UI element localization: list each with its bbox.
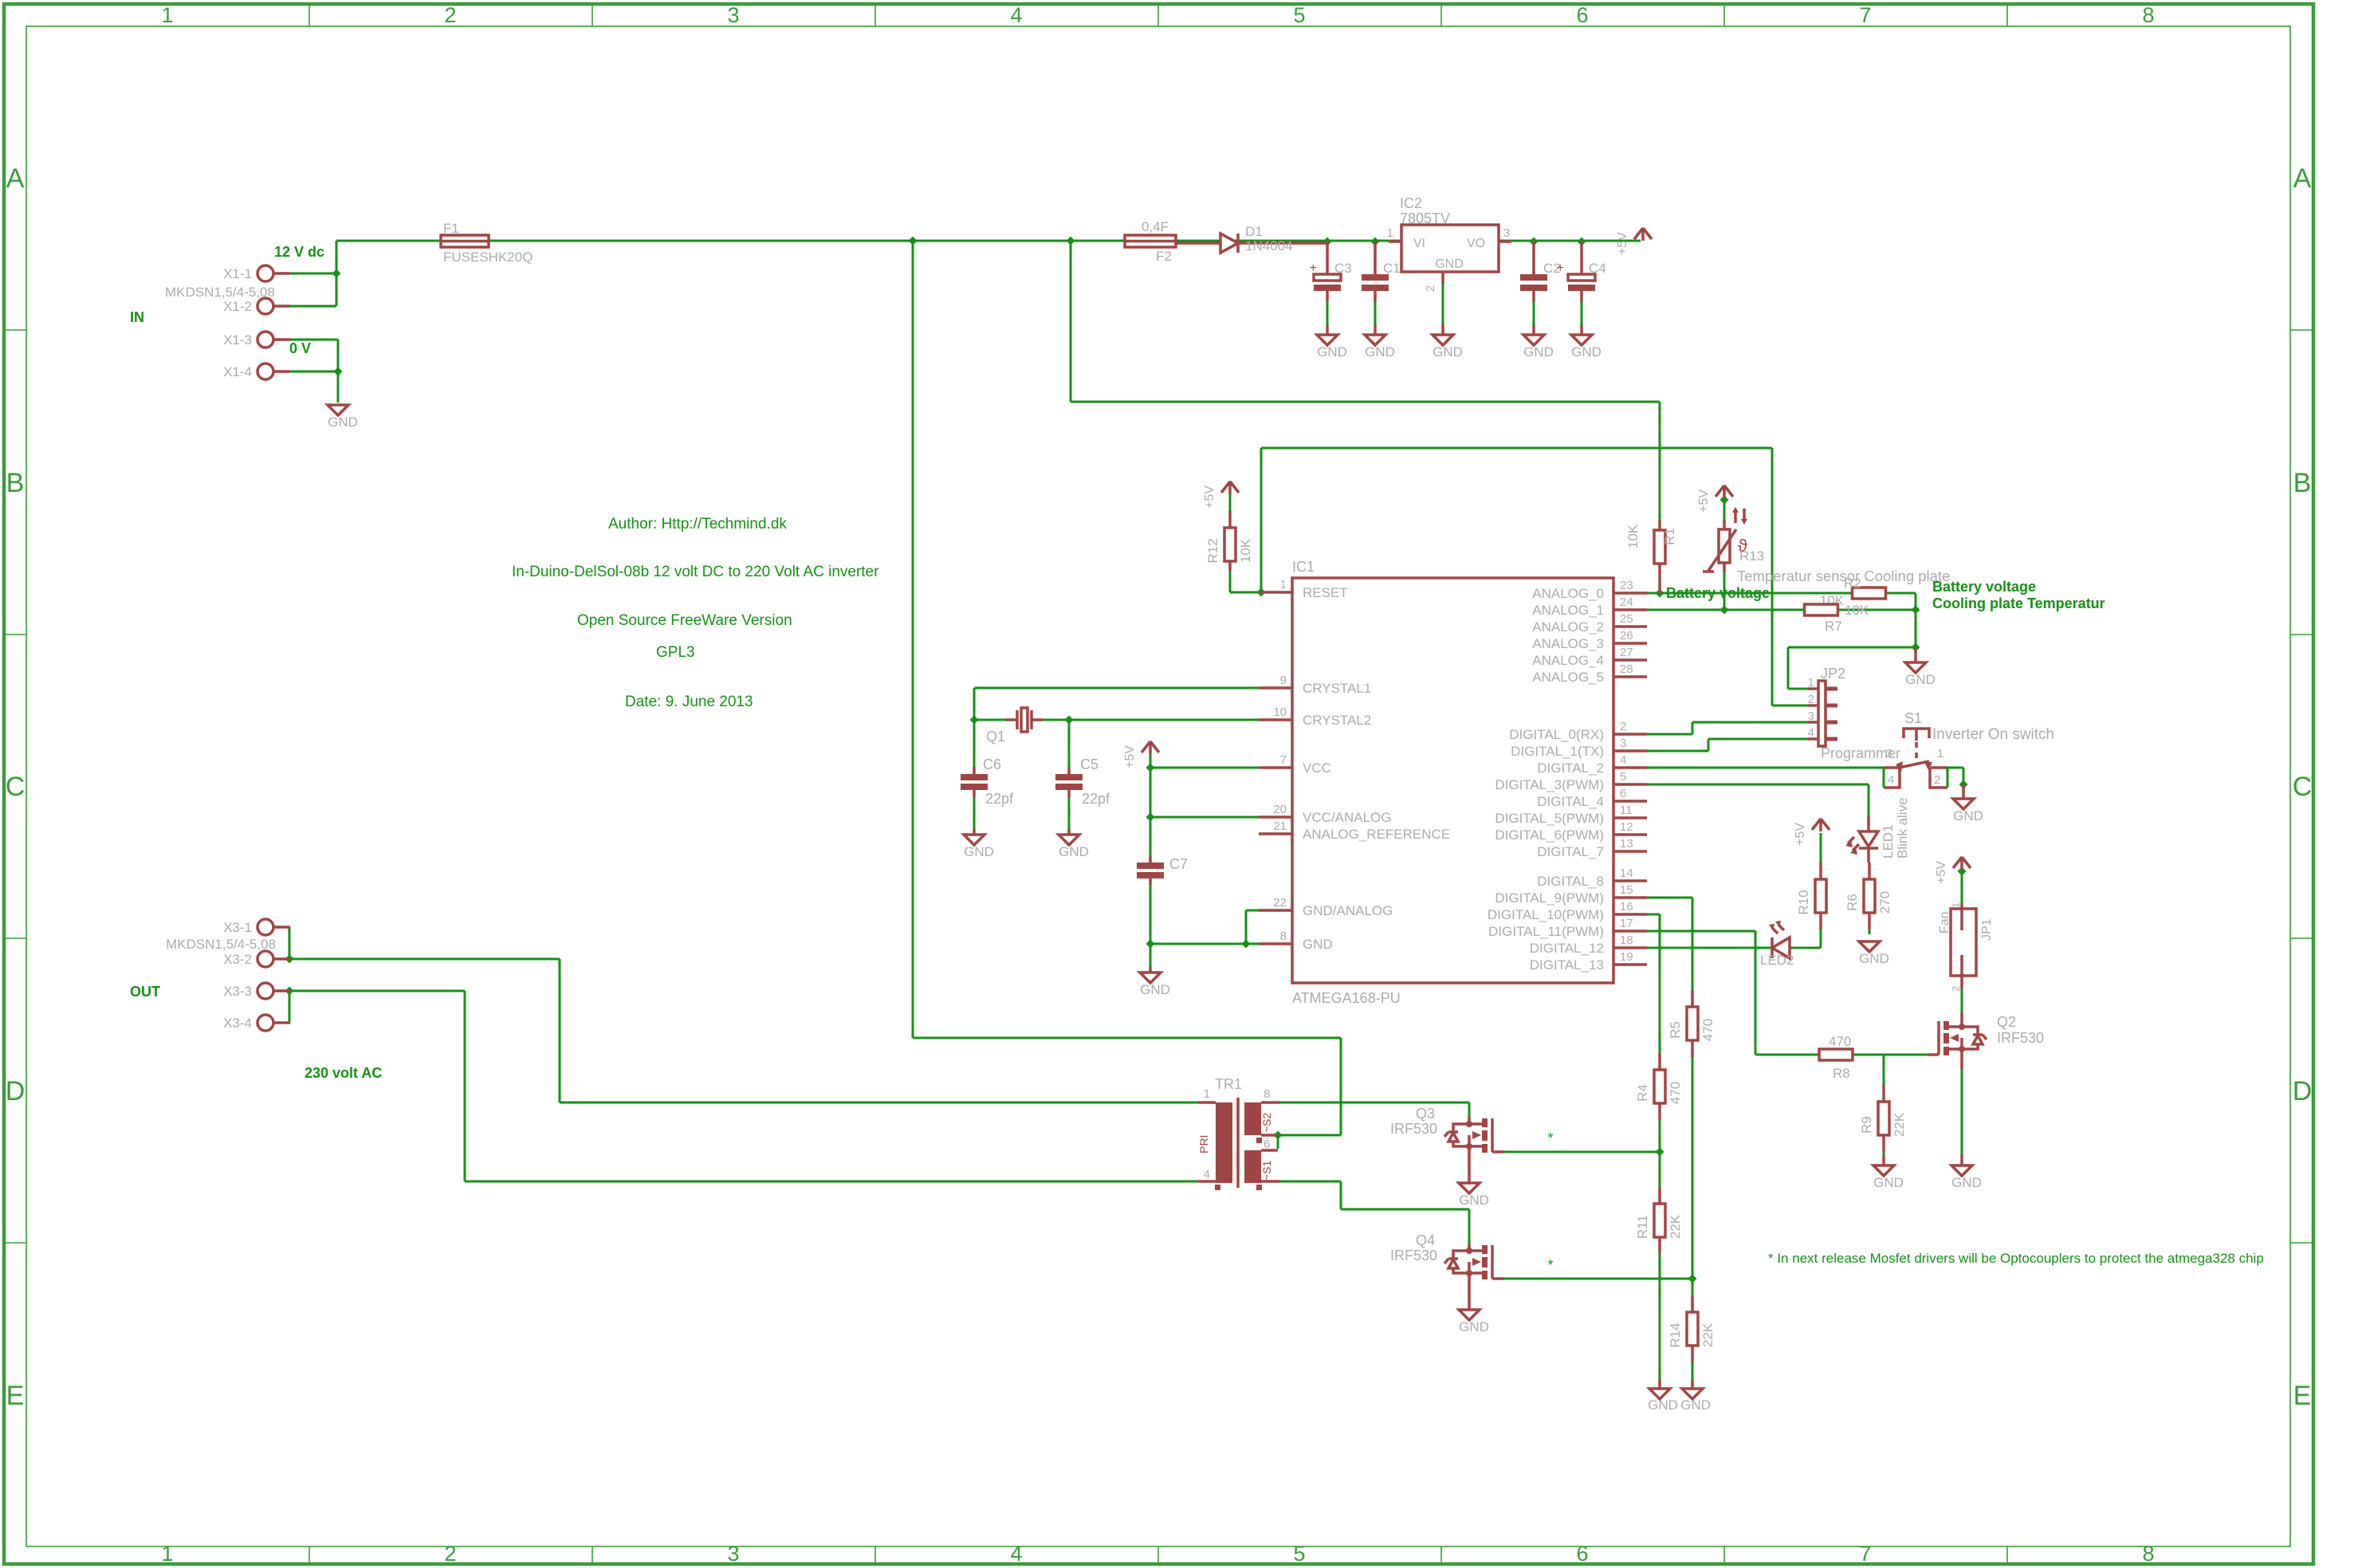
svg-text:Author: Http://Techmind.dk: Author: Http://Techmind.dk — [608, 516, 787, 532]
svg-text:7: 7 — [1859, 1542, 1871, 1566]
svg-text:7: 7 — [1280, 753, 1287, 767]
diode D1 1N4004 — [1220, 234, 1238, 253]
svg-text:PRI: PRI — [1197, 1135, 1210, 1153]
svg-text:Q2: Q2 — [1997, 1014, 2016, 1030]
svg-text:JP2: JP2 — [1821, 666, 1845, 682]
ground GND C2 — [1523, 335, 1544, 345]
svg-text:ANALOG_REFERENCE: ANALOG_REFERENCE — [1303, 827, 1450, 842]
svg-text:1N4004: 1N4004 — [1245, 238, 1293, 253]
svg-text:DIGITAL_0(RX): DIGITAL_0(RX) — [1509, 727, 1604, 742]
svg-text:*: * — [1547, 1130, 1553, 1146]
svg-text:VI: VI — [1413, 237, 1425, 250]
svg-text:Fan: Fan — [1938, 911, 1951, 933]
svg-text:1: 1 — [161, 1542, 173, 1566]
svg-text:C: C — [2293, 772, 2313, 802]
junction X1-1 node — [332, 269, 341, 278]
junction C7 GND node — [1146, 940, 1155, 949]
svg-text:6: 6 — [1620, 787, 1626, 800]
svg-text:22K: 22K — [1892, 1112, 1907, 1137]
ground GND C6 — [964, 835, 984, 845]
svg-text:IC2: IC2 — [1400, 195, 1422, 211]
svg-text:24: 24 — [1620, 595, 1633, 609]
svg-text:A: A — [2293, 163, 2312, 194]
svg-text:ANALOG_1: ANALOG_1 — [1532, 603, 1604, 618]
svg-text:23: 23 — [1620, 579, 1633, 592]
svg-text:6: 6 — [1576, 1542, 1588, 1566]
svg-text:R13: R13 — [1739, 548, 1764, 564]
svg-text:8: 8 — [1280, 929, 1287, 943]
svg-text:20: 20 — [1273, 803, 1287, 816]
svg-text:B: B — [6, 468, 25, 498]
svg-text:3: 3 — [1620, 737, 1626, 750]
svg-text:GND: GND — [328, 415, 358, 430]
svg-text:R7: R7 — [1825, 619, 1842, 634]
capacitor C2 — [1532, 242, 1535, 301]
ground GND Q4 symbol — [1459, 1310, 1480, 1320]
svg-text:DIGITAL_6(PWM): DIGITAL_6(PWM) — [1495, 827, 1604, 843]
svg-text:2: 2 — [1424, 285, 1437, 292]
svg-text:10K: 10K — [1238, 538, 1253, 563]
svg-text:27: 27 — [1620, 646, 1633, 659]
+5V supply JP1 — [1953, 857, 1971, 870]
svg-text:0 V: 0 V — [289, 340, 311, 356]
connector pin X3-2 — [257, 951, 273, 967]
svg-text:X3-2: X3-2 — [223, 952, 252, 967]
svg-text:1: 1 — [161, 3, 173, 27]
resistor R6 — [1864, 879, 1875, 913]
svg-text:5: 5 — [1620, 770, 1626, 784]
svg-text:ANALOG_3: ANALOG_3 — [1532, 636, 1604, 651]
svg-text:VCC: VCC — [1303, 760, 1331, 776]
resistor R9 — [1878, 1102, 1889, 1135]
junction crystal C5 node — [1065, 716, 1074, 725]
resistor R12 — [1224, 528, 1236, 561]
svg-text:GND: GND — [1571, 344, 1602, 360]
svg-text:4: 4 — [1808, 726, 1814, 740]
svg-text:GND: GND — [1459, 1193, 1489, 1208]
svg-text:15: 15 — [1620, 883, 1633, 897]
svg-text:1: 1 — [1387, 226, 1393, 240]
svg-text:4: 4 — [1010, 3, 1022, 27]
svg-text:+5V: +5V — [1794, 823, 1807, 846]
junction X1-4 node — [334, 367, 343, 376]
svg-text:MKDSN1,5/4-5,08: MKDSN1,5/4-5,08 — [165, 285, 275, 300]
connector pin X1-4 — [257, 364, 273, 379]
ground GND C5 — [1059, 835, 1079, 845]
junction C2 node — [1530, 238, 1539, 246]
LED1 blink alive — [1867, 815, 1870, 863]
svg-text:470: 470 — [1700, 1019, 1715, 1041]
svg-text:GND: GND — [1317, 344, 1347, 360]
junction X3-3 node — [285, 987, 294, 996]
svg-text:C3: C3 — [1334, 261, 1352, 276]
svg-text:4: 4 — [1204, 1168, 1210, 1181]
svg-text:GND: GND — [1873, 1175, 1904, 1190]
ground GND Q2 symbol — [1951, 1165, 1972, 1176]
svg-text:DIGITAL_5(PWM): DIGITAL_5(PWM) — [1495, 811, 1604, 826]
ground GND S1 — [1962, 784, 1965, 799]
svg-text:GND: GND — [1680, 1397, 1711, 1413]
svg-text:+: + — [1557, 261, 1564, 275]
svg-text:22K: 22K — [1668, 1214, 1683, 1239]
svg-text:10K: 10K — [1845, 603, 1869, 618]
svg-text:2: 2 — [1950, 986, 1962, 992]
ground GND C1 — [1365, 335, 1385, 345]
svg-text:S1: S1 — [1904, 710, 1922, 726]
svg-text:OUT: OUT — [130, 984, 160, 1000]
ground GND S1 symbol — [1953, 799, 1974, 809]
svg-text:Date: 9. June 2013: Date: 9. June 2013 — [625, 694, 753, 710]
svg-text:DIGITAL_8: DIGITAL_8 — [1537, 874, 1604, 889]
ground GND Q4 — [1468, 1273, 1471, 1310]
svg-text:+5V: +5V — [1616, 232, 1629, 255]
svg-text:B: B — [2293, 468, 2312, 498]
junction R13 +5V node — [1720, 496, 1729, 505]
svg-text:DIGITAL_10(PWM): DIGITAL_10(PWM) — [1488, 907, 1604, 922]
resistor R5 — [1687, 1007, 1698, 1040]
svg-text:12 V dc: 12 V dc — [274, 244, 324, 260]
svg-text:D: D — [6, 1076, 26, 1106]
ground GND R11 — [1658, 1379, 1661, 1389]
capacitor C1 — [1374, 242, 1377, 301]
svg-text:X1-3: X1-3 — [223, 332, 252, 348]
svg-text:R10: R10 — [1796, 890, 1811, 914]
svg-text:22pf: 22pf — [1082, 791, 1110, 807]
svg-text:X3-1: X3-1 — [223, 920, 252, 935]
junction C3 node — [1323, 238, 1332, 246]
svg-text:3: 3 — [1503, 226, 1510, 240]
svg-text:GND: GND — [1433, 344, 1463, 360]
junction R1 pin23 node — [1656, 589, 1664, 598]
svg-text:2: 2 — [444, 3, 456, 27]
resistor R14 — [1687, 1312, 1698, 1346]
svg-text:Cooling plate Temperatur: Cooling plate Temperatur — [1932, 595, 2105, 611]
svg-text:C5: C5 — [1080, 756, 1098, 772]
ground GND Q2 — [1960, 1154, 1963, 1165]
svg-text:E: E — [2293, 1381, 2312, 1411]
svg-text:DIGITAL_11(PWM): DIGITAL_11(PWM) — [1488, 924, 1604, 939]
svg-text:ANALOG_4: ANALOG_4 — [1532, 653, 1604, 668]
svg-text:GND: GND — [964, 844, 994, 859]
svg-text:25: 25 — [1620, 612, 1633, 626]
ground GND R9 symbol — [1873, 1165, 1894, 1176]
svg-text:18: 18 — [1620, 933, 1633, 947]
svg-text:GND: GND — [1459, 1319, 1489, 1334]
resistor R10 — [1815, 879, 1826, 913]
junction C4 node — [1578, 238, 1586, 246]
svg-text:X1-4: X1-4 — [223, 364, 252, 379]
svg-text:16: 16 — [1620, 900, 1633, 914]
svg-text:8: 8 — [2142, 3, 2154, 27]
svg-text:+5V: +5V — [1203, 485, 1216, 509]
svg-text:D1: D1 — [1245, 224, 1263, 239]
svg-text:TR1: TR1 — [1215, 1076, 1242, 1092]
svg-text:*: * — [1547, 1257, 1553, 1273]
crystal Q1 — [1006, 718, 1043, 721]
junction TR1 tap node — [1274, 1131, 1283, 1140]
svg-text:4: 4 — [1620, 753, 1626, 767]
svg-text:ANALOG_5: ANALOG_5 — [1532, 670, 1604, 685]
wire Q4 source to GND — [289, 241, 1963, 1379]
svg-text:DIGITAL_12: DIGITAL_12 — [1530, 941, 1604, 956]
svg-text:GND: GND — [1951, 1175, 1982, 1190]
svg-text:GND: GND — [1905, 672, 1936, 687]
svg-text:X1-2: X1-2 — [223, 299, 252, 314]
svg-text:IRF530: IRF530 — [1390, 1121, 1437, 1137]
svg-text:FUSESHK20Q: FUSESHK20Q — [443, 250, 533, 265]
svg-text:* In next release Mosfet drive: * In next release Mosfet drivers will be… — [1768, 1251, 2264, 1266]
svg-text:DIGITAL_13: DIGITAL_13 — [1530, 957, 1604, 973]
resistor R8 — [1819, 1049, 1853, 1060]
svg-text:R1: R1 — [1662, 528, 1677, 545]
resistor R11 — [1654, 1204, 1665, 1237]
junction R13 pin24 node — [1720, 606, 1729, 615]
svg-text:R2: R2 — [1844, 576, 1861, 591]
junction crystal C6 node — [970, 716, 979, 725]
svg-text:4: 4 — [1888, 773, 1894, 787]
ground GND C3 — [1317, 335, 1338, 345]
svg-text:22: 22 — [1273, 896, 1287, 910]
thermistor R13 — [1723, 520, 1726, 572]
svg-text:JP1: JP1 — [1980, 918, 1994, 941]
fuse F1 — [441, 235, 489, 247]
svg-text:DIGITAL_7: DIGITAL_7 — [1537, 844, 1604, 859]
junction S1 GND node — [1959, 780, 1968, 789]
svg-text:+5V: +5V — [1935, 861, 1948, 884]
svg-text:VO: VO — [1467, 237, 1485, 250]
svg-text:8: 8 — [1264, 1087, 1270, 1101]
svg-text:14: 14 — [1620, 867, 1633, 880]
svg-text:270: 270 — [1877, 891, 1892, 914]
svg-text:28: 28 — [1620, 662, 1633, 676]
svg-text:21: 21 — [1273, 819, 1287, 833]
resistor R7 — [1805, 604, 1838, 615]
svg-text:A: A — [6, 163, 25, 194]
junction VCC analog node — [1146, 813, 1155, 822]
switch S1 inverter on — [1904, 729, 1929, 741]
+5V supply VCC — [1142, 741, 1159, 754]
svg-text:DIGITAL_4: DIGITAL_4 — [1537, 794, 1604, 809]
svg-text:3: 3 — [727, 3, 739, 27]
LED2 — [1771, 946, 1792, 949]
svg-text:2: 2 — [1620, 720, 1626, 733]
svg-text:DIGITAL_1(TX): DIGITAL_1(TX) — [1511, 744, 1604, 759]
svg-text:2: 2 — [444, 1542, 456, 1566]
junction rail TR1 drop node — [909, 237, 918, 246]
junction JP1 +5V node — [1958, 867, 1967, 876]
svg-text:C4: C4 — [1589, 261, 1606, 276]
svg-text:12: 12 — [1620, 820, 1633, 834]
svg-text:C1: C1 — [1383, 261, 1401, 276]
svg-text:6: 6 — [1264, 1138, 1270, 1151]
svg-text:GND: GND — [1859, 951, 1889, 966]
svg-text:1: 1 — [1937, 747, 1943, 760]
svg-text:R8: R8 — [1833, 1066, 1850, 1081]
fuse F2 — [1125, 235, 1176, 247]
+5V supply R12 — [1221, 481, 1239, 494]
svg-text:RESET: RESET — [1303, 585, 1348, 600]
svg-text:Battery voltage: Battery voltage — [1932, 579, 2036, 595]
svg-text:22K: 22K — [1700, 1322, 1715, 1347]
svg-text:1: 1 — [1280, 578, 1287, 591]
ground GND R6 — [1859, 941, 1880, 952]
ground GND Q3 symbol — [1459, 1183, 1480, 1193]
svg-text:IRF530: IRF530 — [1390, 1248, 1437, 1263]
ground GND R2 R7 symbol — [1905, 662, 1926, 673]
svg-text:LED1: LED1 — [1881, 824, 1896, 859]
svg-text:X3-3: X3-3 — [223, 984, 252, 999]
svg-text:C6: C6 — [983, 756, 1001, 772]
svg-text:17: 17 — [1620, 917, 1633, 930]
svg-text:1: 1 — [1204, 1087, 1210, 1101]
svg-text:2: 2 — [1934, 773, 1940, 787]
transformer TR1 — [1216, 1102, 1232, 1183]
svg-text:4: 4 — [1010, 1542, 1022, 1566]
svg-text:26: 26 — [1620, 629, 1633, 643]
junction GND branch node — [1912, 643, 1920, 652]
svg-text:9: 9 — [1280, 674, 1287, 687]
svg-text:IRF530: IRF530 — [1997, 1030, 2044, 1046]
junction Q4 gate node — [1688, 1275, 1697, 1283]
junction pin22 pin8 node — [1242, 940, 1251, 949]
svg-text:7805TV: 7805TV — [1400, 210, 1450, 226]
svg-text:230 volt AC: 230 volt AC — [305, 1065, 382, 1081]
junction X3-2 node — [285, 955, 294, 964]
svg-text:LED2: LED2 — [1760, 953, 1794, 968]
junction VCC node — [1146, 764, 1155, 772]
svg-text:VCC/ANALOG: VCC/ANALOG — [1303, 810, 1391, 825]
svg-text:IN: IN — [130, 309, 144, 325]
svg-text:R9: R9 — [1859, 1116, 1874, 1134]
svg-text:0,4F: 0,4F — [1142, 219, 1169, 234]
svg-text:GND/ANALOG: GND/ANALOG — [1303, 903, 1393, 918]
capacitor C4 — [1580, 242, 1583, 301]
svg-text:GND: GND — [1523, 344, 1554, 360]
svg-text:Blink alive: Blink alive — [1895, 797, 1910, 859]
svg-text:7: 7 — [1859, 3, 1871, 27]
svg-text:8: 8 — [2142, 1542, 2154, 1566]
connector pin X1-3 — [257, 332, 273, 348]
+5V supply R13 — [1715, 485, 1733, 498]
ground GND Q3 — [1468, 1146, 1471, 1183]
svg-text:R4: R4 — [1635, 1084, 1650, 1102]
svg-text:E: E — [6, 1381, 25, 1411]
ground GND R2 R7 — [1914, 647, 1917, 662]
svg-text:Q3: Q3 — [1416, 1106, 1435, 1122]
svg-text:C7: C7 — [1169, 856, 1188, 872]
svg-text:1: 1 — [1808, 676, 1814, 690]
connector JP1 fan — [1951, 909, 1976, 976]
ground GND X1 — [328, 405, 348, 415]
svg-text:Inverter On switch: Inverter On switch — [1932, 726, 2054, 743]
svg-text:GND: GND — [1365, 344, 1395, 360]
svg-text:11: 11 — [1620, 804, 1633, 817]
transistor Q3 IRF530 — [1468, 1116, 1471, 1124]
junction C1 node — [1371, 238, 1380, 246]
junction rail drop node — [1067, 237, 1075, 246]
svg-text:MKDSN1,5/4-5,08: MKDSN1,5/4-5,08 — [166, 937, 276, 952]
svg-text:GND: GND — [1140, 982, 1170, 997]
svg-text:5: 5 — [1293, 3, 1305, 27]
connector pin X1-2 — [257, 298, 273, 314]
svg-text:In-Duino-DelSol-08b 12 volt DC: In-Duino-DelSol-08b 12 volt DC to 220 Vo… — [512, 564, 879, 580]
svg-text:ATMEGA168-PU: ATMEGA168-PU — [1292, 990, 1401, 1006]
+5V supply rail — [1634, 228, 1652, 241]
ground GND R9 — [1882, 1156, 1885, 1165]
svg-text:Open Source FreeWare Version: Open Source FreeWare Version — [577, 612, 792, 629]
svg-text:10K: 10K — [1625, 524, 1641, 548]
svg-text:DIGITAL_3(PWM): DIGITAL_3(PWM) — [1495, 777, 1604, 792]
svg-text:X3-4: X3-4 — [223, 1016, 252, 1031]
svg-text:6: 6 — [1576, 3, 1588, 27]
svg-text:R14: R14 — [1668, 1322, 1683, 1347]
svg-text:D: D — [2293, 1076, 2313, 1106]
svg-text:Q1: Q1 — [986, 729, 1005, 745]
svg-text:~S2: ~S2 — [1260, 1112, 1273, 1133]
svg-text:GND: GND — [1953, 808, 1983, 823]
connector pin X3-4 — [257, 1015, 273, 1031]
svg-text:ANALOG_2: ANALOG_2 — [1532, 619, 1604, 635]
svg-text:C: C — [6, 772, 26, 802]
svg-text:2: 2 — [1808, 693, 1814, 706]
svg-text:CRYSTAL1: CRYSTAL1 — [1303, 681, 1371, 696]
svg-text:3: 3 — [1886, 747, 1892, 760]
ground GND IC2 — [1433, 335, 1453, 345]
+5V supply R10 — [1812, 819, 1829, 831]
svg-text:19: 19 — [1620, 950, 1633, 964]
ground GND C7 — [1140, 973, 1161, 983]
svg-text:3: 3 — [1808, 709, 1814, 723]
connector pin X3-3 — [257, 983, 273, 999]
connector pin X1-1 — [257, 265, 273, 281]
capacitor C6 — [973, 767, 976, 797]
svg-text:+5V: +5V — [1123, 745, 1137, 768]
ground GND R14 — [1691, 1379, 1694, 1389]
svg-text:R11: R11 — [1635, 1215, 1650, 1239]
junction Q3 gate node — [1656, 1148, 1664, 1157]
svg-text:DIGITAL_2: DIGITAL_2 — [1537, 760, 1604, 776]
resistor R2 — [1853, 588, 1886, 599]
svg-text:470: 470 — [1829, 1034, 1851, 1049]
svg-text:CRYSTAL2: CRYSTAL2 — [1303, 713, 1371, 728]
junction R2 R7 node — [1912, 606, 1920, 615]
svg-text:5: 5 — [1293, 1542, 1305, 1566]
svg-text:ANALOG_0: ANALOG_0 — [1532, 586, 1604, 601]
capacitor C5 — [1067, 767, 1071, 797]
svg-text:470: 470 — [1668, 1082, 1683, 1104]
IC IC1 ATMEGA168-PU box — [1292, 578, 1613, 983]
svg-text:1: 1 — [1950, 902, 1962, 908]
svg-text:GND: GND — [1059, 844, 1089, 859]
svg-text:Q4: Q4 — [1416, 1232, 1435, 1248]
svg-text:+: + — [1310, 261, 1317, 275]
transistor Q2 IRF530 — [1960, 1012, 1963, 1027]
svg-text:GND: GND — [1435, 257, 1464, 271]
capacitor C7 — [1149, 856, 1152, 885]
resistor R4 — [1654, 1070, 1665, 1103]
svg-text:F2: F2 — [1156, 249, 1172, 264]
svg-text:~S1: ~S1 — [1260, 1160, 1273, 1181]
resistor R1 — [1654, 530, 1665, 564]
svg-text:+5V: +5V — [1697, 489, 1711, 513]
ground GND C4 — [1571, 335, 1592, 345]
svg-text:10: 10 — [1273, 705, 1287, 719]
svg-text:F1: F1 — [443, 221, 459, 236]
svg-text:R5: R5 — [1668, 1021, 1683, 1039]
svg-text:GND: GND — [1648, 1397, 1678, 1413]
svg-text:R6: R6 — [1845, 894, 1860, 911]
transistor Q4 IRF530 — [1468, 1244, 1471, 1251]
